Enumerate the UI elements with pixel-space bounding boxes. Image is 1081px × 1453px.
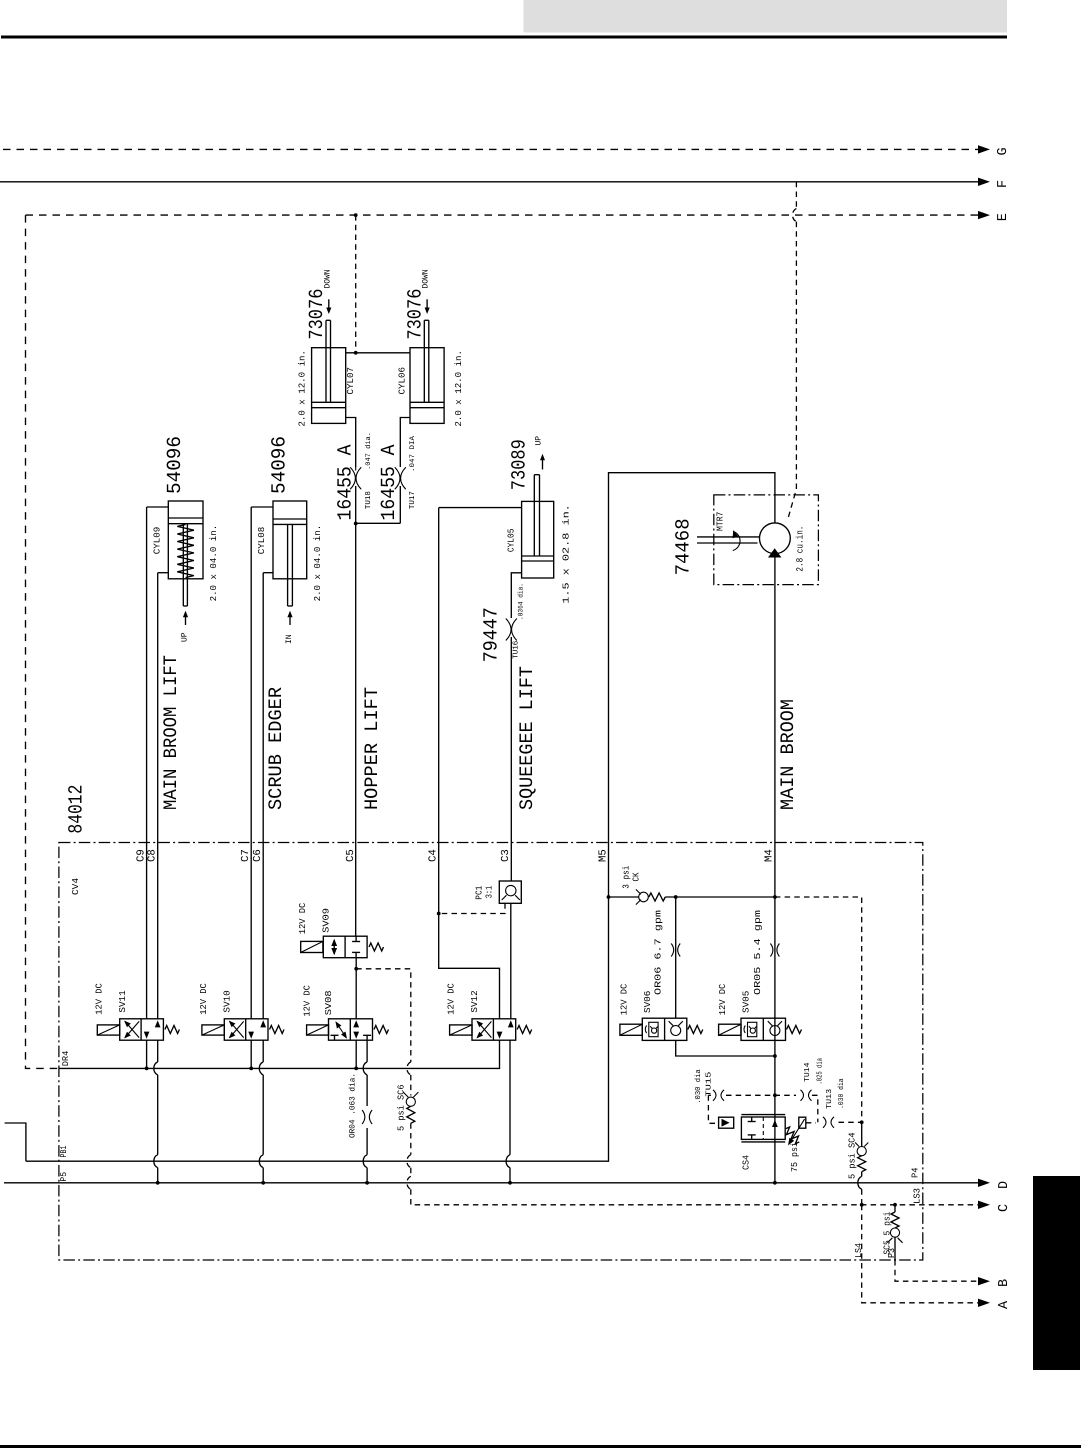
- orifice OR05: [770, 944, 773, 957]
- cylinder CYL08 piston: [273, 518, 307, 520]
- pilot line TU15-TU14 (dashed): [708, 1094, 711, 1096]
- wire CYL05 rod port to C4 line: [439, 507, 522, 509]
- line E (dashed, top of drain envelope) to connector E: [26, 214, 979, 216]
- valve SV05 body: [741, 1018, 786, 1040]
- valve SV09 flow arrow (open position): [333, 940, 335, 954]
- svg-text:2.0 x 04.0 in.: 2.0 x 04.0 in.: [209, 525, 219, 602]
- wire PB1 rail: [26, 897, 609, 1161]
- svg-text:CK: CK: [631, 872, 641, 881]
- svg-text:D: D: [997, 1181, 1012, 1189]
- compensator CS4 body: [741, 1117, 785, 1139]
- junction M4/P5: [773, 1181, 777, 1185]
- solenoid SV09 coil: [301, 941, 323, 952]
- svg-text:74468: 74468: [672, 518, 695, 575]
- page header rule: [1, 36, 1007, 39]
- svg-text:54096: 54096: [268, 436, 291, 494]
- svg-text:12V DC: 12V DC: [620, 983, 630, 1015]
- svg-text:SCRUB EDGER: SCRUB EDGER: [265, 687, 287, 810]
- svg-text:DOWN: DOWN: [422, 269, 431, 288]
- junction C5/TU17: [354, 522, 358, 526]
- orifice TU13: [823, 1117, 826, 1128]
- wire CYL09 rod port (C8): [158, 572, 169, 574]
- svg-text:C8: C8: [147, 849, 159, 862]
- svg-text:PB1: PB1: [59, 1146, 69, 1158]
- svg-text:C: C: [997, 1204, 1012, 1212]
- svg-text:DR4: DR4: [61, 1051, 71, 1067]
- svg-text:16455 A: 16455 A: [378, 445, 401, 521]
- svg-text:TU16: TU16: [511, 640, 520, 658]
- svg-text:A: A: [997, 1300, 1012, 1309]
- valve block 84012 boundary (dash-dot): [59, 843, 923, 1261]
- svg-text:12V DC: 12V DC: [199, 983, 209, 1015]
- valve SV10 body: [224, 1019, 268, 1040]
- svg-text:5 psi SC4: 5 psi SC4: [848, 1133, 858, 1180]
- svg-text:SQUEEGEE LIFT: SQUEEGEE LIFT: [516, 666, 538, 810]
- svg-text:M5: M5: [597, 849, 609, 862]
- svg-text:CYL05: CYL05: [506, 529, 516, 553]
- orifice OR06: [671, 944, 674, 957]
- check valve SC6 (5 psi): [403, 1092, 408, 1097]
- cylinder CYL07 piston: [312, 401, 346, 403]
- arrow DOWN (CYL07): [328, 299, 330, 311]
- valve SV10 parallel passage arrows: [248, 1032, 254, 1039]
- svg-text:2.0 x 12.0 in.: 2.0 x 12.0 in.: [297, 350, 307, 427]
- wire TU13 to LS node (dashed): [839, 1121, 862, 1123]
- valve SV11 body: [120, 1019, 164, 1040]
- svg-text:2.8 cu.in.: 2.8 cu.in.: [795, 526, 806, 572]
- svg-text:SV05: SV05: [742, 991, 752, 1013]
- motor MTR7 enclosure (dash-dot): [714, 495, 819, 585]
- svg-text:TU14: TU14: [804, 1062, 812, 1082]
- wire C7 line (port C7 to SV10): [250, 507, 252, 1019]
- svg-text:OR05 5.4 gpm: OR05 5.4 gpm: [753, 910, 763, 995]
- valve SV09 blocked ports: [355, 936, 357, 941]
- spring SV10: [270, 1026, 285, 1034]
- wire PC1 pilot (dashed) to C4: [439, 903, 505, 913]
- svg-text:2.0 x 12.0 in.: 2.0 x 12.0 in.: [454, 350, 464, 427]
- junction PC1 pilot / C4: [437, 912, 441, 916]
- cylinder CYL09 rod: [182, 524, 184, 606]
- svg-text:5 psi SC6: 5 psi SC6: [396, 1085, 406, 1132]
- junction SC6 branch: [354, 967, 358, 971]
- cylinder CYL09 body: [168, 501, 203, 579]
- svg-text:IN: IN: [285, 634, 294, 644]
- svg-text:TU15: TU15: [706, 1071, 714, 1097]
- arrow D: [978, 1179, 990, 1187]
- wire CYL07 cap port to TU18: [346, 418, 356, 468]
- arrow UP (CYL09): [185, 613, 187, 626]
- check valve PC1 3:1 body: [499, 881, 521, 903]
- junction CK/M4: [773, 895, 777, 899]
- svg-text:G: G: [996, 147, 1011, 155]
- svg-text:HOPPER LIFT: HOPPER LIFT: [361, 687, 383, 810]
- svg-text:OR04 .063 dia.: OR04 .063 dia.: [349, 1073, 358, 1138]
- svg-text:MAIN BROOM LIFT: MAIN BROOM LIFT: [160, 655, 182, 810]
- wire M4 line (port M4 through OR05/SV05/CS4 to P5): [774, 843, 776, 1183]
- check valve SC5 (5 psi): [894, 1205, 896, 1212]
- wire M5 riser to motor top: [609, 473, 775, 843]
- compensator CS4 flow arrow: [772, 1120, 778, 1127]
- valve SV10 crossover arrows: [230, 1021, 244, 1037]
- wire SC4 across P5 to line C: [858, 1176, 862, 1189]
- wire dashed M4-to-LS drop: [775, 897, 862, 1122]
- orifice TU15: [713, 1090, 716, 1101]
- page header gray box: [523, 0, 1007, 33]
- svg-text:C6: C6: [252, 849, 264, 862]
- svg-text:CS4: CS4: [741, 1155, 751, 1170]
- wire C5 below SV09: [355, 958, 357, 1019]
- page edge tab (black): [1033, 1176, 1080, 1370]
- svg-text:CYL07: CYL07: [346, 367, 356, 395]
- spring SV12: [517, 1026, 532, 1034]
- svg-text:3 psi: 3 psi: [622, 866, 632, 889]
- svg-text:P4: P4: [911, 1168, 921, 1179]
- motor rotation arrow: [733, 532, 740, 551]
- svg-text:F: F: [996, 180, 1011, 188]
- arrow A: [978, 1299, 990, 1307]
- junction E/drain drop: [354, 213, 358, 217]
- valve SV06 check position: [669, 1021, 674, 1025]
- wire C4 line (port C4 to SV12): [439, 508, 500, 1019]
- valve SV11 parallel passage arrows: [144, 1032, 150, 1039]
- junction rod-line/drain: [354, 351, 358, 355]
- svg-text:C3: C3: [500, 849, 512, 862]
- wire LS4 drop to connector A: [862, 1205, 979, 1303]
- cylinder CYL08 body: [273, 501, 307, 579]
- solenoid SV06 coil: [620, 1024, 642, 1035]
- wire P5 rail to connector D: [4, 1182, 979, 1184]
- wire TU17 join to C5: [356, 522, 401, 524]
- wire CYL09 cap port (C9): [147, 506, 169, 508]
- valve SV05 pilot poppet cartridge: [744, 1026, 745, 1034]
- valve SV11 crossover arrows: [125, 1021, 139, 1037]
- wire P3 drop to connector B: [895, 1260, 979, 1281]
- wire SV08 right port to P5 via OR04: [366, 1040, 368, 1062]
- cylinder CYL05 piston: [522, 555, 554, 557]
- check valve SC4 (5 psi): [861, 1122, 863, 1146]
- svg-text:.030 dia: .030 dia: [694, 1069, 703, 1104]
- wire SV11 A-port to DR4: [146, 1040, 148, 1068]
- svg-text:LS3: LS3: [912, 1188, 922, 1204]
- junction CK/OR06: [674, 895, 678, 899]
- svg-text:79447: 79447: [480, 607, 503, 662]
- svg-text:MAIN BROOM: MAIN BROOM: [777, 699, 799, 810]
- spring SV11: [165, 1026, 180, 1034]
- cylinder CYL06 body: [410, 348, 444, 424]
- svg-text:.030 dia: .030 dia: [837, 1078, 846, 1109]
- arrow IN (CYL08): [289, 613, 291, 626]
- wire dashed pilot TU15 branch: [708, 1095, 718, 1123]
- cylinder CYL06 rod: [423, 320, 425, 402]
- svg-text:73076: 73076: [306, 289, 329, 340]
- svg-text:UP: UP: [535, 436, 544, 446]
- wire PB1 inlet stub: [5, 1123, 26, 1161]
- svg-text:TU13: TU13: [825, 1088, 834, 1109]
- spring SV09: [369, 943, 384, 951]
- valve SV05 check position: [768, 1021, 773, 1025]
- valve SV08 position-2 passage: [353, 1020, 359, 1027]
- svg-text:3:1: 3:1: [484, 886, 494, 899]
- solenoid SV10 coil: [202, 1025, 224, 1035]
- junction M4/pilot: [773, 1093, 777, 1097]
- svg-text:P3: P3: [887, 1248, 897, 1258]
- motor MTR7 circle: [760, 523, 791, 554]
- svg-text:C5: C5: [345, 849, 357, 862]
- valve SV12 parallel passage arrows: [497, 1032, 503, 1039]
- svg-text:P5: P5: [59, 1172, 69, 1182]
- svg-text:SV09: SV09: [321, 908, 331, 933]
- compensator CS4 pilot cap: [719, 1117, 734, 1128]
- svg-text:2.0 x 04.0 in.: 2.0 x 04.0 in.: [313, 525, 323, 602]
- check valve PC1 poppet: [506, 885, 516, 895]
- valve SV06 body: [642, 1018, 687, 1040]
- valve SV06 pilot poppet cartridge: [645, 1026, 646, 1034]
- wire SV10 B-port to P5: [262, 1040, 264, 1062]
- wire OR06 branch: [675, 897, 677, 1018]
- wire CYL05 cap port to TU16: [511, 573, 521, 618]
- svg-text:MTR7: MTR7: [715, 512, 725, 531]
- cylinder CYL09 piston: [168, 517, 203, 519]
- svg-text:TU17: TU17: [409, 491, 417, 509]
- svg-text:.047 DIA: .047 DIA: [409, 435, 417, 472]
- wire SV11 B-port to P5: [157, 1040, 159, 1062]
- orifice TU18: [356, 467, 361, 489]
- svg-text:SV11: SV11: [118, 990, 128, 1012]
- wire CYL08 rod port (C6): [263, 572, 273, 574]
- wire C9 line (port C9 to SV11): [146, 507, 148, 1019]
- svg-text:C4: C4: [428, 849, 440, 862]
- page footer rule: [0, 1445, 1081, 1448]
- line F (solid) to connector F: [0, 181, 979, 183]
- compensator CS4 spring cap: [799, 1117, 806, 1128]
- wire C3 line (PC1 to SV12): [510, 903, 512, 1019]
- wire C6 line (port C6 to SV10): [262, 573, 264, 1019]
- svg-text:73076: 73076: [404, 289, 427, 340]
- arrow E: [978, 211, 990, 219]
- svg-text:CYL09: CYL09: [152, 527, 162, 555]
- line G (dashed) to connector G: [3, 148, 979, 150]
- svg-text:12V DC: 12V DC: [298, 902, 308, 934]
- svg-text:SV06: SV06: [643, 991, 653, 1013]
- wire CS4 to TU13: [806, 1122, 816, 1124]
- svg-text:LS4: LS4: [854, 1243, 864, 1258]
- svg-text:SV12: SV12: [470, 990, 480, 1012]
- wire C8 line (port C8 to SV11): [157, 573, 159, 1019]
- arrow B: [978, 1277, 990, 1285]
- cylinder CYL05 rod: [533, 475, 535, 556]
- svg-text:TU18: TU18: [364, 491, 373, 509]
- svg-text:.0364 dia.: .0364 dia.: [516, 583, 525, 620]
- svg-text:1.5 x 02.8 in.: 1.5 x 02.8 in.: [561, 504, 571, 604]
- valve SV09 body: [323, 936, 367, 958]
- valve SV08 position-1 diagonal arrow: [336, 1023, 346, 1038]
- svg-text:M4: M4: [764, 849, 776, 862]
- check valve CK (3 psi): [609, 896, 639, 898]
- wire SV06 outlet to M4: [676, 1040, 775, 1056]
- solenoid SV08 coil: [307, 1025, 329, 1035]
- solenoid SV11 coil: [97, 1025, 119, 1035]
- svg-text:CV4: CV4: [71, 878, 81, 895]
- svg-text:DOWN: DOWN: [323, 269, 332, 288]
- wire rod-end interconnect CYL07-CYL06: [346, 352, 410, 354]
- svg-text:B: B: [997, 1279, 1012, 1287]
- wire dashed drop from F to motor case drain: [795, 182, 797, 209]
- svg-text:CYL08: CYL08: [257, 527, 267, 555]
- valve SV12 crossover arrows: [477, 1021, 491, 1037]
- spring SV05: [787, 1026, 802, 1034]
- wire SV12 B-port to P5: [509, 1040, 511, 1155]
- orifice TU14: [801, 1090, 804, 1101]
- wire SV10 A-port to DR4: [250, 1040, 252, 1068]
- wire DR4 drain line: [59, 1040, 500, 1068]
- solenoid SV12 coil: [450, 1025, 472, 1035]
- motor flow arrow (into motor): [768, 548, 781, 557]
- svg-text:SV08: SV08: [324, 990, 334, 1015]
- compensator CS4 blocked ports: [751, 1117, 753, 1122]
- valve SV08 position-1 blocked port: [334, 1035, 336, 1040]
- svg-text:.047 dia.: .047 dia.: [364, 432, 373, 470]
- junction LS node: [860, 1120, 864, 1124]
- arrow UP (CYL05): [542, 456, 544, 470]
- svg-text:12V DC: 12V DC: [94, 983, 104, 1015]
- cylinder CYL07 rod: [325, 320, 327, 402]
- spring SV08: [374, 1026, 389, 1034]
- junction SC4/line C: [860, 1203, 864, 1207]
- cylinder CYL06 piston: [410, 401, 444, 403]
- orifice TU17: [401, 467, 406, 489]
- cylinder CYL07 body: [312, 348, 346, 424]
- svg-text:C7: C7: [240, 849, 252, 862]
- svg-text:84012: 84012: [66, 785, 89, 834]
- svg-text:SV10: SV10: [222, 990, 232, 1012]
- arrow C: [978, 1201, 990, 1209]
- wire CYL08 cap port (C7): [251, 506, 273, 508]
- wire dashed branch to SC6: [356, 969, 411, 1062]
- wire CYL06 cap port to TU17: [400, 418, 410, 468]
- solenoid SV05 coil: [719, 1024, 741, 1035]
- svg-text:OR06 6.7 gpm: OR06 6.7 gpm: [654, 910, 664, 995]
- spring inside CYL09: [177, 525, 194, 578]
- arrow DOWN (CYL06): [426, 299, 428, 311]
- svg-text:54096: 54096: [164, 436, 187, 494]
- svg-text:CYL06: CYL06: [397, 367, 407, 395]
- junction M5/CK: [607, 895, 611, 899]
- valve SV08 body: [329, 1019, 373, 1040]
- wire dashed E-envelope left edge to DR4: [26, 215, 59, 1068]
- wire SC6 to line C (dashed): [410, 1123, 412, 1154]
- svg-text:12V DC: 12V DC: [718, 983, 728, 1015]
- junction SV06/M4: [773, 1054, 777, 1058]
- wire motor to port M4: [774, 554, 776, 843]
- svg-text:12V DC: 12V DC: [302, 985, 312, 1017]
- orifice OR04: [362, 1110, 365, 1124]
- svg-text:75 psi: 75 psi: [790, 1142, 800, 1172]
- wire dashed drop E to cylinder rod line: [355, 215, 357, 353]
- wire C5 hopper line to SV09: [355, 524, 357, 937]
- wire SV08 left port to DR4: [355, 1040, 357, 1068]
- svg-text:PC1: PC1: [475, 886, 485, 900]
- cylinder CYL08 rod: [287, 524, 289, 606]
- motor MTR7 shaft: [697, 536, 760, 538]
- svg-text:16455 A: 16455 A: [334, 445, 357, 521]
- svg-text:.025 dia: .025 dia: [815, 1058, 824, 1085]
- orifice TU16: [512, 619, 517, 641]
- valve SV12 body: [472, 1019, 516, 1040]
- svg-text:12V DC: 12V DC: [447, 983, 457, 1015]
- spring SV06: [688, 1026, 703, 1034]
- spring CS4 (75 psi, adjustable): [783, 1126, 802, 1145]
- cylinder CYL05 body: [522, 501, 554, 578]
- svg-text:E: E: [996, 213, 1011, 221]
- svg-text:73089: 73089: [508, 439, 531, 490]
- valve SV08 position-2 blocked port: [366, 1035, 368, 1040]
- junction SC5/line C: [893, 1203, 897, 1207]
- wire M5 port line: [608, 843, 610, 897]
- svg-text:UP: UP: [181, 632, 190, 642]
